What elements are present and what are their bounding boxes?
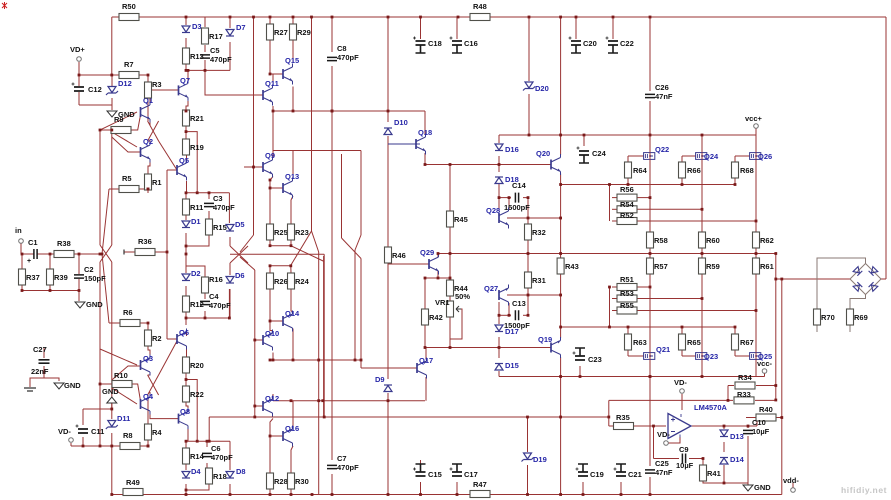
wire Q12 base <box>255 405 263 407</box>
svg-text:C10: C10 <box>752 418 766 427</box>
junction <box>185 130 188 133</box>
svg-text:R17: R17 <box>209 32 223 41</box>
diode D19 <box>524 453 532 459</box>
svg-text:R38: R38 <box>57 239 71 248</box>
wire R46 to Q29 row <box>387 263 389 264</box>
capacitor C9 <box>682 454 685 464</box>
wire R38 to tangle <box>74 253 102 255</box>
wire D16 top <box>498 135 500 143</box>
transistor Q15 <box>282 69 284 79</box>
wire R53 left <box>612 298 620 300</box>
junction <box>681 326 684 329</box>
wire X to R4 <box>147 395 149 424</box>
wire R6 left lead <box>109 322 120 324</box>
wire Q8 emitter <box>187 429 189 441</box>
wire left rail to bottom <box>111 446 113 495</box>
svg-text:vdd-: vdd- <box>783 476 799 485</box>
svg-text:R16: R16 <box>209 275 223 284</box>
wire emitter bus y360 <box>270 359 361 361</box>
svg-text:R40: R40 <box>759 405 773 414</box>
diode D3 <box>182 26 190 32</box>
junction <box>649 286 652 289</box>
wire Q12 collector <box>272 394 274 401</box>
wire C14 left <box>499 197 511 199</box>
capacitor C3 <box>204 203 214 206</box>
svg-text:Q18: Q18 <box>418 128 432 137</box>
svg-text:10µF: 10µF <box>752 427 770 436</box>
wire R25 R23 join <box>270 245 291 247</box>
svg-text:R46: R46 <box>392 251 406 260</box>
wire input gnd bus <box>22 291 79 302</box>
wire VD- bus <box>71 445 148 447</box>
wire Q17 emitter <box>425 377 427 401</box>
wire D8 bottom <box>229 484 231 495</box>
resistor R7 <box>119 72 139 79</box>
svg-text:C6: C6 <box>211 444 221 453</box>
op-amp U1 LM4570A <box>668 414 691 439</box>
resistor R64 <box>625 162 632 178</box>
wire R1 bottom node <box>147 190 149 193</box>
junction <box>608 183 611 186</box>
capacitor C21 <box>616 472 626 476</box>
junction <box>449 163 452 166</box>
svg-text:R19: R19 <box>190 143 204 152</box>
svg-text:Q5: Q5 <box>179 156 189 165</box>
junction <box>424 277 427 280</box>
wire R18 bottom <box>186 484 209 490</box>
junction <box>185 191 188 194</box>
junction <box>323 416 326 419</box>
wire D6 col <box>229 263 231 275</box>
wire VD+ stub <box>78 62 80 86</box>
wire Q20 bus ext <box>610 184 736 186</box>
wire R54 left <box>612 208 620 210</box>
svg-text:D15: D15 <box>505 361 519 370</box>
diode D4 <box>182 472 190 478</box>
wire gate elbow bottom 2 <box>735 355 750 357</box>
junction <box>527 294 530 297</box>
wire C13 left <box>499 314 511 316</box>
wire Q16 collector <box>292 401 294 428</box>
svg-text:R13: R13 <box>190 52 204 61</box>
junction <box>147 322 150 325</box>
junction <box>204 317 207 320</box>
wire Q22 to R <box>649 198 651 232</box>
wire C1 to R38 <box>38 253 55 255</box>
svg-text:C12: C12 <box>88 85 102 94</box>
svg-text:C5: C5 <box>210 46 220 55</box>
junction <box>582 493 585 496</box>
svg-text:Q4: Q4 <box>143 392 154 401</box>
resistor R53 <box>617 295 637 302</box>
junction <box>681 183 684 186</box>
mosfet Q24 <box>696 153 707 160</box>
wire Q7 emitter <box>186 101 188 110</box>
wire D6 row link <box>228 289 230 318</box>
svg-text:C13: C13 <box>512 299 526 308</box>
resistor R10 <box>112 381 132 388</box>
resistor R66 <box>679 162 686 178</box>
svg-text:R11: R11 <box>190 203 203 212</box>
wire Q22 drain <box>649 159 651 198</box>
svg-text:47nF: 47nF <box>655 468 673 477</box>
svg-text:GND: GND <box>754 483 771 492</box>
junction <box>269 493 272 496</box>
junction <box>701 134 704 137</box>
wire Q26 drain <box>755 159 757 221</box>
junction <box>317 359 320 362</box>
wire Q2 emitter to R1 <box>148 160 150 175</box>
wire X350 leg1 <box>355 235 361 250</box>
wire v775 to v781 link <box>776 278 782 280</box>
capacitor C4 <box>200 301 210 304</box>
wire R14 top <box>185 441 187 448</box>
svg-text:vcc-: vcc- <box>757 359 773 368</box>
resistor R49 <box>123 489 143 496</box>
wire R4 bottom <box>147 440 149 446</box>
svg-text:Q20: Q20 <box>536 149 550 158</box>
diode D12 <box>108 87 116 93</box>
resistor R3 <box>145 82 152 98</box>
svg-text:C22: C22 <box>620 39 634 48</box>
svg-text:Q19: Q19 <box>538 335 552 344</box>
wire D1 bottom <box>185 233 187 254</box>
junction <box>649 375 652 378</box>
svg-text:R70: R70 <box>821 313 835 322</box>
resistor R59 <box>699 258 706 274</box>
wire R16 top link <box>186 266 205 277</box>
terminal vcc- <box>762 369 767 374</box>
svg-text:470pF: 470pF <box>337 53 359 62</box>
svg-text:VD-: VD- <box>657 430 670 439</box>
wire D12 top lead <box>111 75 113 86</box>
capacitor C16 <box>452 41 462 45</box>
wire R45 bottom <box>449 227 451 254</box>
junction <box>559 217 562 220</box>
wire Q13 base <box>270 187 283 189</box>
svg-text:D12: D12 <box>118 79 132 88</box>
transistor Q5 <box>176 165 178 175</box>
wire bridge top lead <box>817 258 866 309</box>
wire R5 left lead <box>109 188 119 190</box>
svg-text:R34: R34 <box>738 373 753 382</box>
wire Q9 emitter <box>270 177 273 225</box>
svg-text:VD-: VD- <box>58 427 71 436</box>
resistor R26 <box>267 273 274 289</box>
junction <box>331 110 334 113</box>
wire R42 bottom <box>424 325 426 348</box>
wire Q11 base feed <box>205 70 263 95</box>
diode D7 <box>226 30 234 36</box>
wire bridge feed <box>782 278 850 280</box>
transistor Q14 <box>282 316 284 326</box>
junction <box>78 74 81 77</box>
resistor R61 <box>753 258 760 274</box>
wire Q2 base feed <box>112 137 141 152</box>
svg-text:R6: R6 <box>123 308 133 317</box>
wire Q11 collector <box>272 74 274 83</box>
resistor R19 <box>183 139 190 155</box>
wire Q15 collector <box>292 40 294 62</box>
diode bridge D3 <box>853 282 862 291</box>
svg-text:Q29: Q29 <box>420 248 434 257</box>
diode bridge D1 <box>853 267 862 276</box>
wire C26 bottom <box>649 101 651 135</box>
svg-text:D4: D4 <box>191 467 201 476</box>
resistor R11 <box>183 199 190 215</box>
wire R57 col mid Q26 <box>755 274 757 311</box>
svg-text:C15: C15 <box>428 470 442 479</box>
svg-text:470pF: 470pF <box>213 203 235 212</box>
junction <box>559 252 562 255</box>
svg-text:Q17: Q17 <box>419 356 433 365</box>
wire D6 bottom <box>229 289 231 318</box>
wire x332 bottom <box>331 474 333 495</box>
capacitor C24 <box>579 151 589 155</box>
resistor R24 <box>288 273 295 289</box>
wire R57 col mid Q22 <box>649 274 651 287</box>
wire Q28 collector <box>508 198 510 209</box>
wire Q26 to R <box>755 221 757 232</box>
junction <box>269 179 272 182</box>
wire gate R bottom 1 <box>681 178 683 185</box>
wire gate Rb top 1 <box>681 350 683 356</box>
transistor Q20 <box>550 160 552 170</box>
wire N-mos feed Q24 <box>701 299 703 354</box>
wire C23 bottom <box>579 366 581 377</box>
wire R36 left stub <box>124 251 135 253</box>
junction <box>110 493 113 496</box>
svg-text:D1: D1 <box>191 217 201 226</box>
wire D14 bottom <box>723 465 725 483</box>
resistor R43 <box>557 258 564 274</box>
wire Q16 base <box>270 435 283 437</box>
svg-text:in: in <box>15 226 22 235</box>
wire R5 right <box>119 188 148 190</box>
svg-text:47nF: 47nF <box>655 92 673 101</box>
wire VD+ feed <box>79 74 148 76</box>
transistor Q9 <box>262 162 264 172</box>
wire R55 left <box>612 310 620 312</box>
wire bridge bottom lead <box>850 295 866 310</box>
junction <box>204 69 207 72</box>
wire cap top lead x457 <box>456 17 458 39</box>
wire R24 top link <box>290 266 292 273</box>
resistor R9 <box>111 127 131 134</box>
wire Q6 base <box>167 338 177 340</box>
svg-text:C19: C19 <box>590 470 604 479</box>
wire R25 bottom <box>269 240 271 246</box>
svg-text:R31: R31 <box>532 276 546 285</box>
junction <box>99 383 102 386</box>
wire opamp vminus <box>669 437 681 443</box>
wire inverting node <box>653 426 655 459</box>
junction <box>185 110 188 113</box>
junction <box>354 359 357 362</box>
svg-text:R32: R32 <box>532 228 546 237</box>
svg-text:R26: R26 <box>274 277 288 286</box>
wire R57 col top Q26 <box>755 254 757 259</box>
wire R35 right <box>634 425 667 427</box>
junction <box>147 74 150 77</box>
wire C24 top <box>583 135 585 146</box>
wire Q20 base bus <box>425 164 551 166</box>
wire R55 right <box>634 310 756 312</box>
junction <box>747 425 750 428</box>
wire C13 right <box>523 314 528 316</box>
wire cap bottom lead x583 <box>582 482 584 495</box>
svg-text:VR1: VR1 <box>435 298 450 307</box>
junction <box>269 73 272 76</box>
wire R27 to Q15 base <box>270 40 283 74</box>
wire R52 left <box>612 220 620 222</box>
junction <box>272 110 275 113</box>
resistor R27 <box>267 24 274 40</box>
junction <box>289 264 292 267</box>
wire Q13 emitter <box>291 196 293 224</box>
svg-text:+: + <box>27 258 31 265</box>
wire C2 bottom <box>78 279 80 291</box>
no-connect mark <box>123 250 125 255</box>
resistor R48 <box>470 14 490 21</box>
svg-text:1500pF: 1500pF <box>504 203 530 212</box>
junction <box>780 278 783 281</box>
wire D9 bottom <box>387 393 389 401</box>
svg-text:R55: R55 <box>620 301 634 310</box>
wire signal bus y111 <box>273 110 425 112</box>
wire gate elbow top 2 <box>735 155 750 157</box>
svg-text:D7: D7 <box>236 23 246 32</box>
wire R42 top <box>424 278 426 309</box>
wire Q19 emitter rail <box>560 357 562 495</box>
wire R27 top <box>269 17 271 24</box>
transistor Q3 <box>140 360 142 370</box>
svg-text:R24: R24 <box>295 277 310 286</box>
wire R46 to Q29 base <box>388 263 429 265</box>
junction <box>449 346 452 349</box>
wire Q24 drain <box>701 159 703 209</box>
wire X239 leg2 <box>230 246 248 263</box>
wire Q20 emitter bus <box>561 184 610 186</box>
svg-text:22nF: 22nF <box>31 367 49 376</box>
capacitor C12 <box>74 87 84 91</box>
svg-text:R23: R23 <box>295 228 309 237</box>
wire R33 right <box>755 399 776 401</box>
junction <box>755 309 758 312</box>
junction <box>612 16 615 19</box>
resistor R31 <box>525 272 532 288</box>
wire left rail B lower <box>99 262 101 446</box>
wire x311 diag A2 <box>312 231 319 252</box>
svg-text:C3: C3 <box>213 194 223 203</box>
wire x355 vert <box>354 250 356 360</box>
junction <box>559 183 562 186</box>
wire x561 top <box>560 17 562 135</box>
terminal VD- opamp minus <box>664 441 669 446</box>
wire collector bus y400 <box>273 400 425 402</box>
junction <box>780 416 783 419</box>
junction <box>608 286 611 289</box>
wire D2 top <box>185 254 187 273</box>
wire X to Q5 base <box>159 141 177 170</box>
wire R53 right <box>634 298 702 300</box>
wire R23 bottom <box>290 240 292 246</box>
wire cap top lead x613 <box>612 17 614 39</box>
resistor R58 <box>647 232 654 248</box>
svg-text:R47: R47 <box>473 480 487 489</box>
resistor R28 <box>267 473 274 489</box>
wire vccminus term stub <box>764 373 766 377</box>
wire base rail x253 <box>253 17 255 235</box>
wire R39 bottom <box>49 285 51 291</box>
junction <box>290 493 293 496</box>
junction <box>498 346 501 349</box>
svg-text:R5: R5 <box>122 174 132 183</box>
wire R57 col mid Q24 <box>701 274 703 299</box>
wire Q5 emitter to R11 <box>186 181 188 193</box>
junction <box>269 359 272 362</box>
svg-text:R50: R50 <box>122 2 136 11</box>
wire X34 leg2 <box>148 375 159 395</box>
wire C27 left gnd <box>30 366 44 387</box>
junction <box>649 252 652 255</box>
wire D7 down <box>229 42 231 70</box>
capacitor C7 <box>327 465 337 468</box>
svg-text:Q15: Q15 <box>285 56 299 65</box>
wire feedback left drop <box>208 417 210 441</box>
junction <box>528 134 531 137</box>
wire R32 bottom <box>527 238 529 254</box>
transistor Q13 <box>282 183 284 193</box>
svg-text:D5: D5 <box>235 220 245 229</box>
svg-text:Q27: Q27 <box>484 284 498 293</box>
wire R30 bottom <box>290 489 292 495</box>
wire Q15 emitter <box>292 87 294 112</box>
wire D11 lower <box>111 433 113 446</box>
wire gate elbow top 1 <box>682 155 696 157</box>
svg-text:VD-: VD- <box>674 378 687 387</box>
svg-text:D6: D6 <box>235 271 245 280</box>
wire R36 right <box>155 251 167 253</box>
svg-text:C11: C11 <box>91 427 104 436</box>
wire C3 to R15 <box>208 211 210 219</box>
mosfet Q25 <box>750 353 761 360</box>
junction <box>292 359 295 362</box>
diode D5 <box>226 225 234 231</box>
wire R29 top <box>292 17 294 24</box>
resistor R37 <box>19 269 26 285</box>
svg-text:C16: C16 <box>464 39 478 48</box>
junction <box>449 252 452 255</box>
junction <box>387 493 390 496</box>
mosfet Q22 <box>644 153 655 160</box>
junction <box>526 493 529 496</box>
wire R44 VR1 link <box>449 296 451 301</box>
svg-text:R30: R30 <box>295 477 309 486</box>
svg-text:D14: D14 <box>730 455 745 464</box>
junction <box>528 16 531 19</box>
wire left rail B upper <box>111 132 113 245</box>
diode D20 <box>525 82 533 88</box>
wire X34 leg1 <box>148 375 159 395</box>
wire D19 top <box>527 417 529 452</box>
wire vccminus stub <box>756 376 765 378</box>
wire C6 R18 link <box>206 463 208 468</box>
wire Q13 collector <box>273 151 293 179</box>
transistor Q27 <box>498 290 500 300</box>
svg-text:R7: R7 <box>124 60 134 69</box>
wire gate R top 2 <box>734 156 736 162</box>
